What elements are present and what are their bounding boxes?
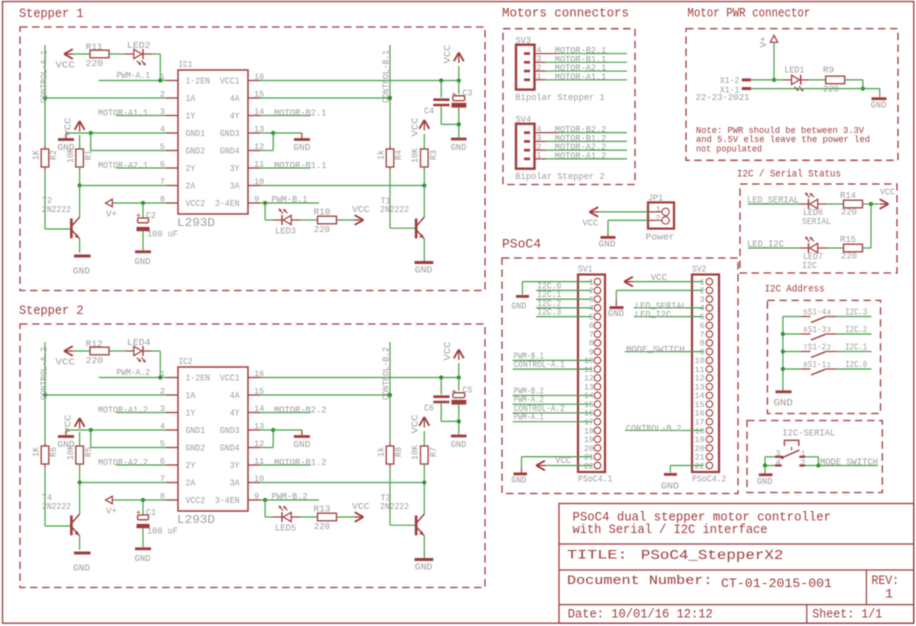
- svg-text:C3: C3: [462, 89, 472, 99]
- svg-text:14: 14: [695, 392, 705, 401]
- svg-text:MOTOR-A1.1: MOTOR-A1.1: [98, 109, 148, 119]
- svg-text:1K: 1K: [32, 149, 42, 160]
- svg-text:R9: R9: [823, 66, 834, 76]
- svg-text:I2C.2: I2C.2: [845, 325, 867, 335]
- svg-text:PSoC4.2: PSoC4.2: [692, 474, 727, 485]
- svg-text:not populated: not populated: [696, 143, 762, 154]
- svg-text:L293D: L293D: [177, 514, 215, 527]
- svg-text:2: 2: [589, 287, 594, 296]
- svg-text:1-2EN: 1-2EN: [186, 77, 211, 87]
- svg-text:R12: R12: [86, 340, 103, 350]
- svg-text:8: 8: [700, 340, 705, 349]
- svg-text:Power: Power: [646, 232, 675, 243]
- svg-text:3Y: 3Y: [230, 164, 240, 174]
- svg-text:V+: V+: [758, 36, 769, 47]
- svg-text:PWM-A.1: PWM-A.1: [117, 71, 151, 81]
- svg-text:C1: C1: [146, 508, 156, 518]
- svg-text:VCC1: VCC1: [220, 374, 240, 384]
- svg-text:3A: 3A: [230, 479, 240, 489]
- svg-text:VCC: VCC: [352, 501, 370, 512]
- svg-text:MOTOR-A2.1: MOTOR-A2.1: [98, 161, 148, 171]
- svg-text:GND4: GND4: [220, 147, 240, 157]
- svg-text:CONTROL-B.2: CONTROL-B.2: [382, 347, 392, 400]
- svg-text:TITLE:: TITLE:: [567, 548, 628, 563]
- svg-text:LED_I2C: LED_I2C: [635, 310, 672, 320]
- svg-text:2A: 2A: [186, 479, 196, 489]
- svg-text:R10: R10: [314, 208, 331, 218]
- svg-text:R15: R15: [840, 235, 856, 245]
- svg-text:17: 17: [695, 418, 705, 427]
- svg-text:11: 11: [695, 366, 705, 375]
- svg-text:R5: R5: [84, 447, 94, 457]
- svg-text:R11: R11: [86, 43, 103, 53]
- svg-text:2Y: 2Y: [186, 461, 196, 471]
- svg-text:I2C-SERIAL: I2C-SERIAL: [782, 428, 835, 439]
- svg-text:220: 220: [823, 85, 839, 95]
- svg-text:VCC: VCC: [410, 117, 421, 136]
- svg-text:7: 7: [589, 331, 594, 340]
- svg-text:VCC: VCC: [63, 414, 74, 433]
- svg-text:21: 21: [584, 454, 594, 463]
- svg-text:VCC: VCC: [56, 60, 76, 71]
- svg-text:2N2222: 2N2222: [42, 502, 71, 512]
- svg-text:8: 8: [589, 340, 594, 349]
- svg-text:MOTOR-A2.2: MOTOR-A2.2: [98, 458, 148, 468]
- svg-text:4Y: 4Y: [230, 112, 240, 122]
- svg-text:PWM-B.2: PWM-B.2: [272, 492, 308, 502]
- svg-text:1: 1: [589, 278, 594, 287]
- svg-text:11: 11: [584, 366, 594, 375]
- svg-text:220: 220: [841, 252, 857, 262]
- svg-text:12: 12: [695, 375, 705, 384]
- svg-text:I2C Address: I2C Address: [765, 284, 825, 296]
- svg-text:9: 9: [589, 348, 594, 357]
- svg-text:VCC: VCC: [555, 455, 571, 466]
- svg-text:MOTOR-B2.1: MOTOR-B2.1: [274, 109, 327, 119]
- svg-text:GND: GND: [608, 308, 625, 319]
- svg-text:GND1: GND1: [186, 426, 206, 436]
- svg-text:PWM-A.2: PWM-A.2: [117, 368, 151, 378]
- svg-text:SERIAL: SERIAL: [802, 217, 831, 227]
- svg-text:Stepper 1: Stepper 1: [19, 6, 84, 21]
- svg-text:20: 20: [584, 445, 594, 454]
- svg-text:S1-2: S1-2: [808, 342, 827, 352]
- svg-text:V+: V+: [106, 506, 117, 517]
- svg-text:I2C / Serial Status: I2C / Serial Status: [737, 169, 841, 181]
- svg-text:15: 15: [695, 401, 705, 410]
- svg-text:2Y: 2Y: [186, 164, 196, 174]
- svg-text:20: 20: [695, 445, 705, 454]
- svg-text:100 uF: 100 uF: [147, 230, 178, 240]
- svg-text:PWM-B.1: PWM-B.1: [272, 195, 308, 205]
- svg-text:MOTOR-B1.2: MOTOR-B1.2: [274, 458, 327, 468]
- svg-text:GND: GND: [511, 301, 526, 312]
- svg-text:22: 22: [584, 462, 594, 471]
- svg-text:PSoC4_StepperX2: PSoC4_StepperX2: [641, 549, 784, 564]
- svg-text:LED2: LED2: [127, 41, 151, 51]
- svg-text:CONTROL-A.2: CONTROL-A.2: [40, 347, 50, 400]
- svg-text:I2C: I2C: [802, 261, 818, 271]
- svg-text:PSoC4.1: PSoC4.1: [578, 474, 613, 485]
- svg-text:PSoC4: PSoC4: [502, 237, 541, 252]
- svg-text:4: 4: [589, 305, 594, 314]
- svg-text:Sheet: 1/1: Sheet: 1/1: [812, 606, 882, 621]
- svg-text:GND: GND: [73, 563, 90, 574]
- svg-text:18: 18: [584, 427, 594, 436]
- svg-text:4: 4: [827, 309, 831, 317]
- svg-text:100 uF: 100 uF: [147, 527, 178, 537]
- svg-text:19: 19: [584, 436, 594, 445]
- svg-text:GND: GND: [415, 265, 433, 276]
- svg-text:2: 2: [700, 287, 705, 296]
- svg-text:VCC2: VCC2: [186, 496, 206, 506]
- svg-text:VCC: VCC: [880, 187, 895, 198]
- svg-text:VCC: VCC: [56, 357, 76, 368]
- svg-text:220: 220: [314, 522, 330, 532]
- svg-text:1: 1: [827, 362, 831, 370]
- svg-text:S1-4: S1-4: [808, 307, 827, 317]
- svg-text:9: 9: [254, 195, 259, 205]
- svg-text:GND1: GND1: [186, 129, 206, 139]
- svg-text:GND3: GND3: [220, 129, 240, 139]
- svg-text:220: 220: [86, 356, 104, 366]
- svg-text:4A: 4A: [230, 391, 240, 401]
- svg-text:22-23-2021: 22-23-2021: [696, 92, 750, 103]
- svg-text:Motor PWR connector: Motor PWR connector: [687, 6, 810, 21]
- svg-text:C2: C2: [146, 211, 156, 221]
- svg-text:CONTROL-B.1: CONTROL-B.1: [382, 50, 392, 103]
- svg-text:10K: 10K: [411, 444, 421, 460]
- svg-text:3-4EN: 3-4EN: [215, 496, 240, 506]
- svg-text:1k: 1k: [377, 150, 387, 160]
- svg-text:CT-01-2015-001: CT-01-2015-001: [721, 577, 832, 591]
- svg-text:VCC1: VCC1: [220, 77, 240, 87]
- svg-text:S1-3: S1-3: [808, 325, 827, 335]
- svg-text:IC2: IC2: [179, 356, 193, 367]
- svg-text:10: 10: [584, 357, 594, 366]
- svg-text:MOTOR-B1.1: MOTOR-B1.1: [274, 161, 327, 171]
- svg-text:9: 9: [254, 492, 259, 502]
- svg-text:V+: V+: [106, 209, 117, 220]
- svg-text:13: 13: [584, 383, 594, 392]
- svg-text:2N2222: 2N2222: [42, 205, 71, 215]
- svg-text:CONTROL-B.2: CONTROL-B.2: [626, 424, 682, 434]
- svg-text:2N2222: 2N2222: [380, 502, 409, 512]
- svg-text:MOTOR-A1.2: MOTOR-A1.2: [98, 406, 148, 416]
- svg-text:13: 13: [695, 383, 705, 392]
- svg-text:R8: R8: [394, 447, 404, 457]
- svg-text:GND: GND: [451, 439, 467, 450]
- svg-text:R14: R14: [840, 191, 856, 201]
- svg-text:GND: GND: [73, 266, 90, 277]
- svg-text:CONTROL-A.1: CONTROL-A.1: [40, 50, 50, 103]
- svg-text:R7: R7: [429, 447, 439, 457]
- svg-text:9: 9: [700, 348, 705, 357]
- svg-text:3Y: 3Y: [230, 461, 240, 471]
- svg-text:MOTOR-A1.2: MOTOR-A1.2: [555, 151, 607, 161]
- svg-text:14: 14: [584, 392, 594, 401]
- svg-text:MODE_SWITCH: MODE_SWITCH: [626, 345, 685, 355]
- svg-text:3: 3: [827, 327, 831, 335]
- svg-text:GND: GND: [774, 399, 793, 410]
- svg-text:Stepper 2: Stepper 2: [19, 303, 84, 318]
- svg-text:3A: 3A: [230, 182, 240, 192]
- svg-text:VCC: VCC: [352, 204, 370, 215]
- svg-text:MOTOR-A1.1: MOTOR-A1.1: [555, 72, 607, 82]
- svg-text:MODE_SWITCH: MODE_SWITCH: [820, 457, 878, 467]
- svg-text:GND: GND: [871, 100, 887, 111]
- svg-text:10K: 10K: [411, 147, 421, 163]
- svg-text:R4: R4: [394, 150, 404, 160]
- svg-text:with Serial / I2C interface: with Serial / I2C interface: [573, 522, 768, 537]
- svg-text:5: 5: [700, 313, 705, 322]
- svg-text:2N2222: 2N2222: [380, 205, 409, 215]
- svg-text:15: 15: [584, 401, 594, 410]
- svg-text:18: 18: [695, 427, 705, 436]
- svg-text:4A: 4A: [230, 94, 240, 104]
- svg-text:GND4: GND4: [220, 444, 240, 454]
- svg-text:CONTROL-A.1: CONTROL-A.1: [514, 360, 565, 370]
- svg-text:C5: C5: [462, 386, 472, 396]
- svg-text:2A: 2A: [186, 182, 196, 192]
- svg-text:1-2EN: 1-2EN: [186, 374, 211, 384]
- svg-text:2: 2: [827, 344, 831, 352]
- svg-text:GND: GND: [511, 475, 526, 486]
- svg-text:19: 19: [695, 436, 705, 445]
- svg-text:220: 220: [86, 59, 104, 69]
- svg-text:Document Number:: Document Number:: [567, 573, 713, 588]
- svg-text:SV1: SV1: [578, 264, 593, 275]
- svg-text:LED4: LED4: [127, 338, 151, 348]
- svg-text:GND: GND: [293, 439, 310, 450]
- svg-text:220: 220: [314, 225, 330, 235]
- svg-text:MOTOR-B2.2: MOTOR-B2.2: [274, 406, 327, 416]
- svg-text:GND3: GND3: [220, 426, 240, 436]
- svg-text:IC1: IC1: [179, 59, 193, 70]
- svg-text:PWM-A.1: PWM-A.1: [514, 413, 544, 423]
- svg-text:GND2: GND2: [186, 147, 206, 157]
- svg-text:L293D: L293D: [177, 217, 215, 230]
- svg-text:R3: R3: [429, 150, 439, 160]
- svg-text:1K: 1K: [32, 446, 42, 457]
- svg-text:VCC: VCC: [63, 117, 74, 136]
- svg-text:GND: GND: [757, 476, 773, 487]
- svg-text:GND: GND: [661, 481, 679, 492]
- svg-text:C4: C4: [424, 107, 434, 117]
- svg-text:6: 6: [700, 322, 705, 331]
- svg-text:GND: GND: [599, 239, 616, 250]
- svg-text:21: 21: [695, 454, 705, 463]
- svg-text:I2C.3: I2C.3: [845, 308, 867, 318]
- svg-text:1A: 1A: [186, 391, 196, 401]
- svg-text:4Y: 4Y: [230, 409, 240, 419]
- svg-text:GND: GND: [451, 142, 467, 153]
- svg-text:VCC: VCC: [442, 44, 453, 63]
- svg-text:I2C.1: I2C.1: [845, 343, 867, 353]
- svg-text:Motors connectors: Motors connectors: [502, 6, 629, 21]
- svg-text:10K: 10K: [66, 147, 76, 163]
- svg-text:2: 2: [656, 214, 661, 224]
- svg-text:1A: 1A: [186, 94, 196, 104]
- svg-text:4: 4: [700, 305, 705, 314]
- svg-text:VCC2: VCC2: [186, 199, 206, 209]
- svg-text:C6: C6: [424, 404, 434, 414]
- svg-text:1: 1: [885, 587, 893, 602]
- svg-text:R13: R13: [314, 505, 331, 515]
- svg-text:GND: GND: [135, 553, 151, 564]
- svg-text:VCC: VCC: [410, 414, 421, 433]
- svg-text:GND2: GND2: [186, 444, 206, 454]
- svg-text:22: 22: [695, 462, 705, 471]
- svg-text:220: 220: [841, 208, 857, 218]
- svg-text:LED3: LED3: [275, 227, 296, 237]
- svg-text:5: 5: [589, 313, 594, 322]
- svg-text:Date: 10/01/16 12:12: Date: 10/01/16 12:12: [568, 606, 713, 621]
- svg-text:Bipolar Stepper 2: Bipolar Stepper 2: [515, 171, 605, 182]
- svg-text:17: 17: [584, 418, 594, 427]
- svg-text:1k: 1k: [377, 447, 387, 457]
- svg-text:1Y: 1Y: [186, 112, 196, 122]
- svg-text:S1-1: S1-1: [808, 360, 827, 370]
- svg-text:VCC: VCC: [442, 341, 453, 360]
- svg-text:VCC: VCC: [651, 272, 668, 283]
- svg-text:10: 10: [695, 357, 705, 366]
- svg-text:10K: 10K: [66, 444, 76, 460]
- svg-text:3: 3: [589, 296, 594, 305]
- svg-text:GND: GND: [293, 142, 310, 153]
- svg-text:12: 12: [584, 375, 594, 384]
- svg-text:3-4EN: 3-4EN: [215, 199, 240, 209]
- svg-text:7: 7: [700, 331, 705, 340]
- svg-text:1Y: 1Y: [186, 409, 196, 419]
- svg-text:3: 3: [700, 296, 705, 305]
- svg-text:I2C.0: I2C.0: [845, 360, 867, 370]
- svg-text:I2C.3: I2C.3: [537, 308, 561, 318]
- svg-text:GND: GND: [135, 256, 151, 267]
- svg-text:1: 1: [700, 278, 705, 287]
- svg-text:LED1: LED1: [784, 66, 804, 76]
- svg-text:R1: R1: [84, 150, 94, 160]
- svg-text:6: 6: [589, 322, 594, 331]
- svg-text:SV2: SV2: [692, 264, 707, 275]
- svg-text:16: 16: [584, 410, 594, 419]
- svg-text:GND: GND: [415, 562, 433, 573]
- svg-text:Bipolar Stepper 1: Bipolar Stepper 1: [515, 92, 605, 103]
- svg-text:16: 16: [695, 410, 705, 419]
- svg-text:LED5: LED5: [275, 524, 296, 534]
- svg-text:VCC: VCC: [582, 218, 598, 229]
